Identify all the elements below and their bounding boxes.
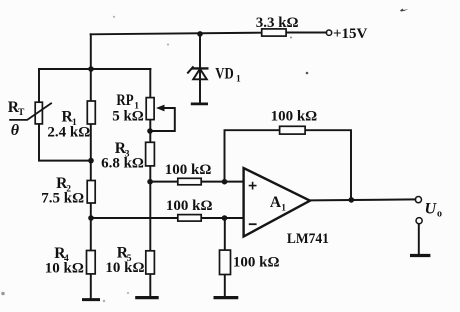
svg-text:1: 1 [281, 203, 286, 213]
svg-text:1: 1 [236, 75, 241, 85]
svg-text:T: T [18, 108, 25, 118]
svg-text:o: o [437, 209, 442, 220]
svg-text:A: A [270, 194, 282, 211]
svg-text:U: U [425, 201, 438, 218]
svg-text:7.5 kΩ: 7.5 kΩ [41, 190, 84, 206]
svg-text:2.4 kΩ: 2.4 kΩ [47, 124, 90, 140]
svg-text:6.8 kΩ: 6.8 kΩ [101, 156, 144, 172]
svg-text:100 kΩ: 100 kΩ [166, 198, 213, 214]
svg-text:θ: θ [11, 122, 20, 139]
svg-text:100 kΩ: 100 kΩ [165, 162, 212, 178]
svg-text:VD: VD [215, 66, 233, 83]
svg-text:100 kΩ: 100 kΩ [233, 254, 280, 270]
svg-text:10 kΩ: 10 kΩ [105, 260, 144, 276]
svg-text:3.3 kΩ: 3.3 kΩ [256, 15, 299, 31]
svg-text:LM741: LM741 [287, 231, 329, 247]
svg-text:5 kΩ: 5 kΩ [112, 108, 144, 124]
svg-text:+15V: +15V [333, 26, 368, 42]
svg-text:100 kΩ: 100 kΩ [271, 108, 318, 124]
svg-text:RP: RP [116, 92, 134, 109]
svg-text:10 kΩ: 10 kΩ [45, 260, 84, 276]
